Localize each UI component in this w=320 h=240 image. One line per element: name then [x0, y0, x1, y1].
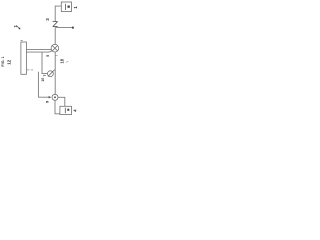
svg-text:7: 7 — [43, 75, 47, 77]
node label 1 with leader arrow (top left) — [13, 25, 21, 30]
diode D1 (Z symbol on bus) — [53, 22, 58, 27]
control wire L to meter — [38, 72, 48, 97]
wire meter bottom to box left — [55, 100, 60, 114]
arrowhead into meter — [49, 96, 52, 99]
svg-text:12: 12 — [6, 59, 11, 64]
svg-text:18: 18 — [59, 58, 64, 63]
svg-text:10: 10 — [41, 78, 45, 82]
crystal box X2 (bottom right) — [60, 106, 72, 114]
tiny mark above box — [21, 39, 23, 41]
divider box A1 (tall rect left) — [21, 42, 27, 74]
meter M1 (circle with dot) — [52, 94, 58, 100]
wire A1 to mixer — [26, 48, 51, 50]
svg-text:FIG. 1: FIG. 1 — [1, 56, 5, 66]
mixer U1 (circle with X) — [51, 44, 59, 52]
svg-text:5: 5 — [46, 55, 50, 57]
wire bus lower — [54, 52, 56, 94]
oscillator G1 (circle with arrow) — [48, 70, 55, 77]
wire B: A1 to mixer lower-left — [26, 51, 52, 52]
junction tick on bus — [55, 55, 57, 57]
dashed control line from A1 — [27, 69, 33, 71]
wire from crystal box to bus — [55, 6, 61, 21]
crystal box X1 (top right) — [61, 2, 71, 12]
wire branch to terminal dot — [55, 27, 72, 29]
wire bus upper — [54, 28, 56, 45]
svg-text:1: 1 — [73, 6, 77, 9]
terminal node dot — [72, 27, 74, 29]
wire to oscillator — [42, 52, 48, 74]
wire meter to crystal box 2 (top) — [58, 97, 65, 106]
leader dash — [66, 61, 68, 62]
